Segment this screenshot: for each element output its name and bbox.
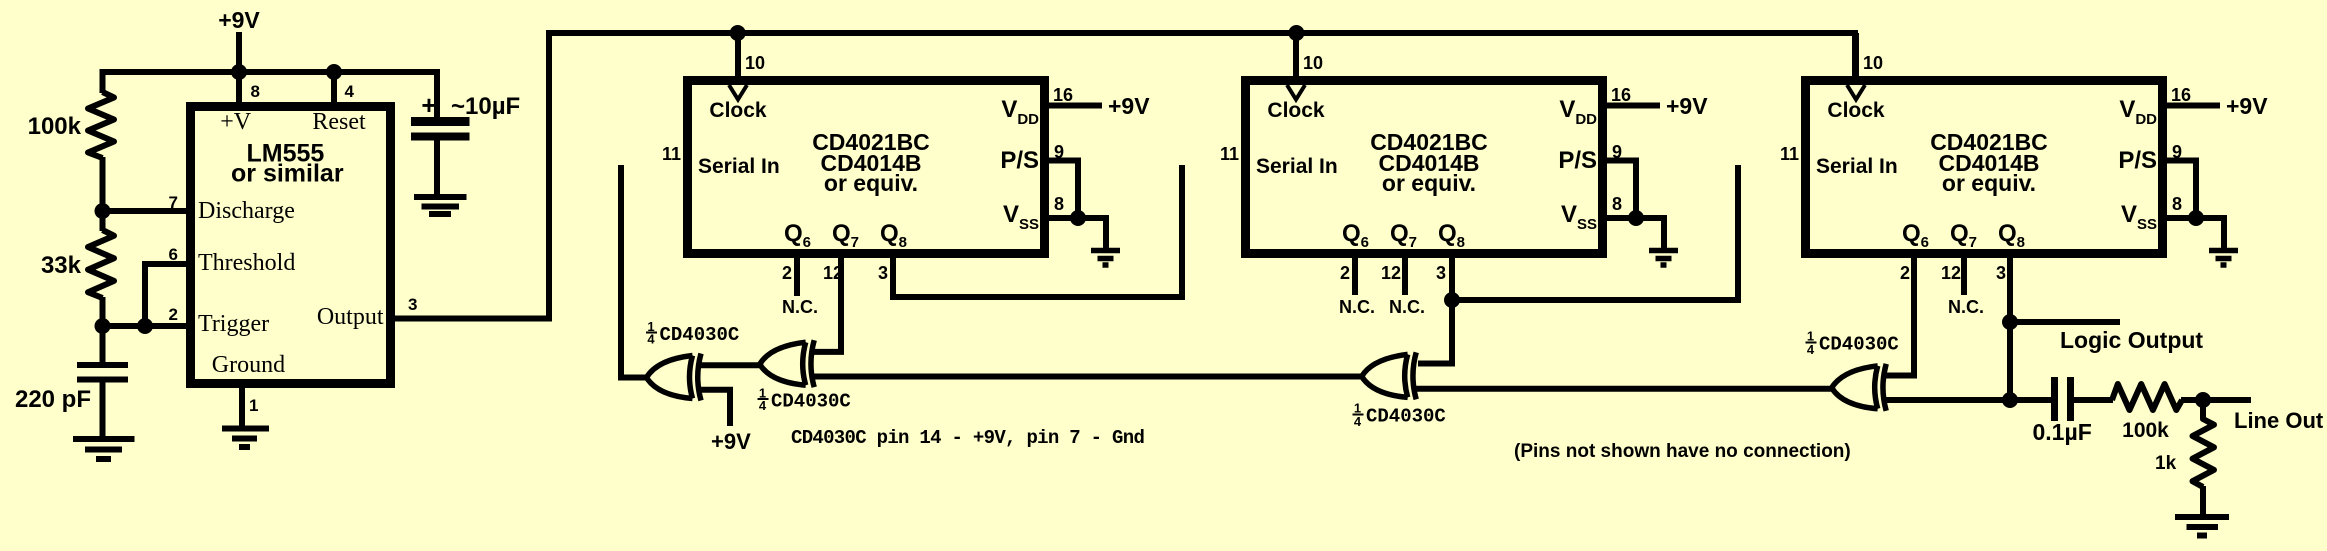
U4 Q7 pin 12 stub xyxy=(1961,258,1967,295)
ground below C1 xyxy=(73,436,135,442)
wire C2 to ground xyxy=(434,137,440,197)
svg-text:4: 4 xyxy=(1807,342,1815,357)
svg-text:7: 7 xyxy=(169,193,178,212)
svg-text:N.C.: N.C. xyxy=(1339,297,1375,317)
node clock U2 xyxy=(730,25,746,41)
svg-text:33k: 33k xyxy=(41,252,82,279)
svg-text:Ground: Ground xyxy=(212,352,285,378)
svg-text:CD4030C: CD4030C xyxy=(1819,334,1899,356)
capacitor C3 0.1uF left plate xyxy=(2051,377,2058,421)
svg-text:4: 4 xyxy=(647,332,655,347)
svg-text:N.C.: N.C. xyxy=(1389,297,1425,317)
svg-text:Logic Output: Logic Output xyxy=(2060,327,2203,353)
svg-text:+9V: +9V xyxy=(711,429,751,454)
ground below pin 1 xyxy=(222,426,269,432)
svg-text:6: 6 xyxy=(169,245,178,264)
svg-text:or similar: or similar xyxy=(231,160,344,188)
svg-text:8: 8 xyxy=(251,82,260,101)
xor gate G4 xyxy=(1832,364,1887,411)
svg-text:+: + xyxy=(421,90,436,120)
svg-text:CD4030C pin 14 - +9V, pin 7 -: CD4030C pin 14 - +9V, pin 7 - Gnd xyxy=(791,427,1144,449)
+9V supply drop wire xyxy=(236,32,242,75)
capacitor C1 220pF bottom plate xyxy=(77,377,128,383)
capacitor C1 220pF top plate xyxy=(77,362,128,368)
node clock U3 xyxy=(1288,25,1304,41)
U3 Q6 pin 2 stub xyxy=(1352,258,1358,295)
svg-text:+V: +V xyxy=(220,109,252,135)
G4 fraction 1/4 xyxy=(1806,329,1817,358)
G1 bottom input +9V stub xyxy=(697,390,730,426)
svg-text:Trigger: Trigger xyxy=(198,311,269,337)
resistor R4 1k xyxy=(2193,400,2215,487)
svg-text:4: 4 xyxy=(759,398,767,413)
output riser xyxy=(546,36,552,319)
pin 8 wire xyxy=(236,72,242,106)
svg-text:Threshold: Threshold xyxy=(198,250,295,276)
capacitor C2 10uF bottom plate xyxy=(411,133,470,141)
threshold pin 6 wire xyxy=(145,264,190,326)
U3 Q8 wire to gate G3 input xyxy=(1418,300,1452,364)
svg-text:220 pF: 220 pF xyxy=(15,386,91,413)
wire R1 to R2 xyxy=(100,157,106,231)
svg-text:Output: Output xyxy=(317,304,384,330)
svg-text:N.C.: N.C. xyxy=(1948,297,1984,317)
node line out xyxy=(2195,392,2211,408)
output pin 3 wire xyxy=(391,316,552,322)
node logic output xyxy=(2002,314,2018,330)
svg-text:100k: 100k xyxy=(28,113,82,140)
svg-text:CD4030C: CD4030C xyxy=(771,391,851,413)
node G4 output net xyxy=(2002,392,2018,408)
svg-text:1k: 1k xyxy=(2155,453,2177,474)
svg-text:4: 4 xyxy=(345,82,355,101)
capacitor C2 10uF top plate xyxy=(411,117,470,126)
svg-text:Line Out: Line Out xyxy=(2234,408,2324,433)
svg-text:4: 4 xyxy=(1354,414,1362,429)
G4 bottom input wire to output node xyxy=(1882,397,2051,403)
svg-text:0.1µF: 0.1µF xyxy=(2033,419,2092,445)
svg-text:100k: 100k xyxy=(2122,419,2169,442)
node threshold-trigger xyxy=(137,318,153,334)
node R1-R2-discharge xyxy=(95,203,111,219)
resistor R2 33k xyxy=(88,230,114,298)
U4 Q8 pin 3 wire down xyxy=(2007,258,2013,400)
wire C1 to ground xyxy=(100,379,106,440)
resistor R1 100k xyxy=(88,92,114,158)
left supply drop to R1 xyxy=(100,69,106,93)
wire R3 to line out xyxy=(2181,397,2251,403)
resistor R3 100k xyxy=(2112,384,2182,410)
ground below R4 xyxy=(2175,514,2229,520)
logic output stub wire xyxy=(2010,319,2120,325)
svg-text:CD4030C: CD4030C xyxy=(1366,406,1446,428)
G2 bottom input wire from G3 output xyxy=(810,374,1362,380)
pin 1 ground wire xyxy=(239,388,245,429)
xor gate G1 xyxy=(647,354,702,401)
G2 output wire to G1 top input xyxy=(697,362,760,368)
node pin4 rail xyxy=(326,64,342,80)
wire R2 to C1 xyxy=(100,297,106,363)
svg-text:~10µF: ~10µF xyxy=(451,93,520,120)
U2 Q8 pin 3 wire to U3 serial in xyxy=(893,165,1182,297)
xor gate G2 xyxy=(760,340,815,387)
node R2-C1-trigger xyxy=(95,318,111,334)
svg-text:+9V: +9V xyxy=(218,7,260,33)
clock distribution rail xyxy=(546,30,1858,36)
U2 Q7 pin 12 wire to gate G2 xyxy=(812,258,841,352)
svg-text:Discharge: Discharge xyxy=(198,198,295,224)
wire C3 to R3 xyxy=(2074,397,2113,403)
wire rail to C2 xyxy=(434,69,440,119)
top supply rail xyxy=(100,69,437,75)
U4 Q6 pin 2 wire to gate G4 input xyxy=(1884,258,1914,376)
U3 Q8 pin 3 wire to U4 serial in xyxy=(1452,165,1738,300)
G3 bottom input wire from G4 output xyxy=(1412,386,1832,392)
xor gate G3 xyxy=(1362,352,1417,399)
wire R4 to ground xyxy=(2200,486,2206,517)
G2 fraction 1/4 xyxy=(758,386,769,414)
U3 Q7 pin 12 stub xyxy=(1402,258,1408,295)
node pin8 rail xyxy=(231,64,247,80)
trigger pin 2 wire xyxy=(103,323,191,329)
svg-text:1: 1 xyxy=(249,396,258,415)
svg-text:(Pins not shown have no connec: (Pins not shown have no connection) xyxy=(1514,441,1851,462)
svg-text:2: 2 xyxy=(169,305,178,324)
clock rail end drop xyxy=(1852,33,1858,76)
pin 4 wire xyxy=(331,72,337,106)
U2 Q6 pin 2 stub xyxy=(794,258,800,296)
svg-text:3: 3 xyxy=(408,295,417,314)
ground below C2 xyxy=(414,194,467,200)
discharge pin 7 wire xyxy=(103,208,191,214)
LM555 box U1 xyxy=(191,107,391,384)
capacitor C3 0.1uF right plate xyxy=(2067,377,2074,421)
svg-text:CD4030C: CD4030C xyxy=(660,324,740,346)
G3 fraction 1/4 xyxy=(1353,401,1364,430)
G1 fraction 1/4 xyxy=(646,319,657,347)
svg-text:Reset: Reset xyxy=(312,109,366,135)
node U3 Q8 xyxy=(1444,292,1460,308)
G1 output wire to serial riser xyxy=(621,165,646,378)
svg-text:N.C.: N.C. xyxy=(782,297,818,317)
